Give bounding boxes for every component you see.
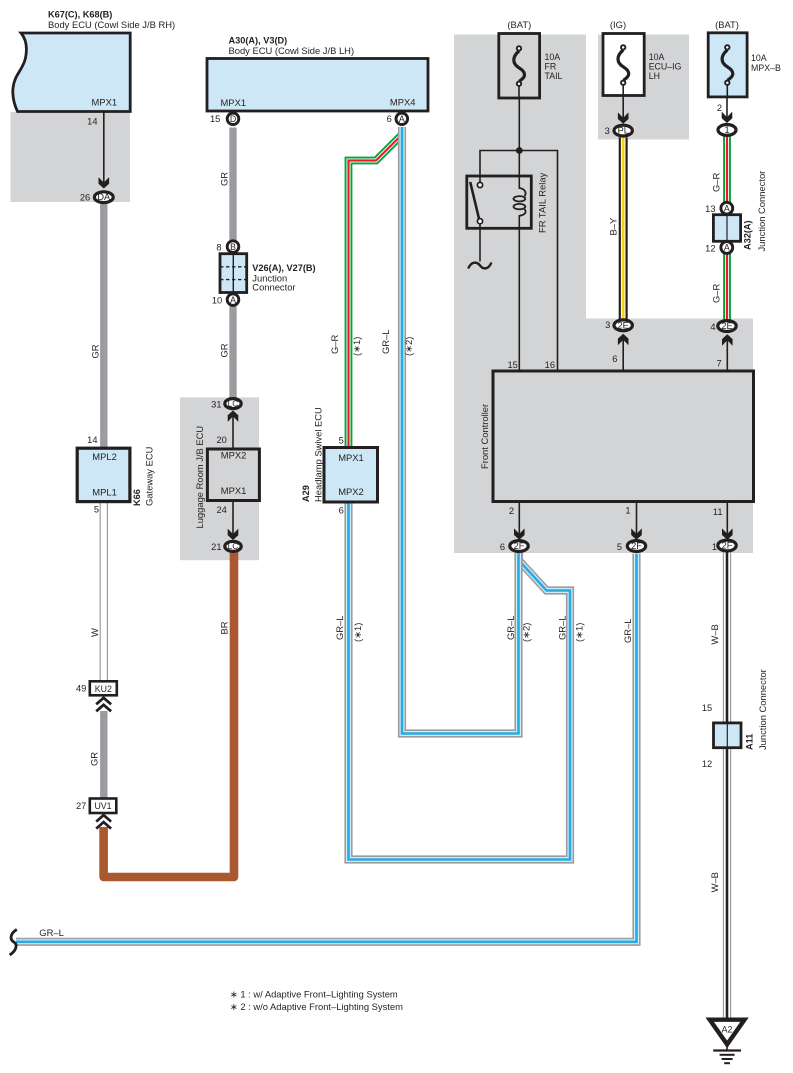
svg-text:11: 11: [713, 507, 723, 517]
svg-text:A: A: [399, 114, 405, 124]
svg-text:KU2: KU2: [95, 684, 112, 694]
svg-text:15: 15: [507, 360, 517, 370]
svg-text:TAIL: TAIL: [545, 71, 563, 81]
svg-text:A29: A29: [301, 485, 311, 502]
svg-text:1: 1: [712, 542, 717, 552]
svg-text:G–R: G–R: [329, 334, 340, 354]
svg-text:MPL1: MPL1: [92, 486, 117, 497]
svg-text:Body ECU (Cowl Side J/B LH): Body ECU (Cowl Side J/B LH): [229, 45, 355, 56]
svg-text:∗ 2 : w/o Adaptive Front–Light: ∗ 2 : w/o Adaptive Front–Lighting System: [230, 1001, 403, 1012]
svg-text:FR TAIL Relay: FR TAIL Relay: [536, 172, 547, 233]
svg-text:10: 10: [212, 296, 222, 306]
svg-text:MPX4: MPX4: [390, 97, 416, 108]
svg-text:G–R: G–R: [711, 283, 722, 303]
svg-text:10A: 10A: [751, 53, 767, 63]
svg-text:MPX–B: MPX–B: [751, 63, 781, 73]
svg-text:6: 6: [500, 542, 505, 552]
svg-text:Front Controller: Front Controller: [479, 404, 490, 469]
svg-text:A: A: [724, 203, 730, 213]
svg-text:MPX1: MPX1: [221, 97, 247, 108]
svg-text:MPX2: MPX2: [338, 486, 364, 497]
svg-text:B–Y: B–Y: [607, 217, 618, 235]
svg-text:W–B: W–B: [709, 624, 720, 644]
svg-text:GR–L: GR–L: [380, 330, 391, 355]
svg-text:6: 6: [387, 114, 392, 124]
svg-text:16: 16: [545, 360, 555, 370]
svg-text:21: 21: [211, 542, 221, 552]
svg-text:A30(A), V3(D): A30(A), V3(D): [229, 36, 288, 46]
svg-text:GR–L: GR–L: [557, 616, 568, 641]
svg-text:15: 15: [702, 703, 712, 713]
svg-text:2F: 2F: [631, 541, 642, 551]
svg-text:20: 20: [216, 435, 226, 445]
svg-text:2E: 2E: [618, 320, 629, 330]
svg-text:W: W: [89, 628, 100, 637]
svg-text:MPX1: MPX1: [221, 485, 247, 496]
svg-text:5: 5: [339, 436, 344, 446]
svg-text:GR: GR: [89, 752, 100, 766]
svg-text:2: 2: [509, 506, 514, 516]
svg-text:49: 49: [76, 684, 86, 694]
svg-text:1: 1: [625, 506, 630, 516]
svg-text:GR: GR: [219, 172, 230, 186]
svg-text:MPX2: MPX2: [221, 450, 247, 461]
svg-text:Body ECU (Cowl Side J/B RH): Body ECU (Cowl Side J/B RH): [48, 19, 175, 30]
svg-text:A32(A): A32(A): [743, 220, 753, 250]
svg-text:DA: DA: [97, 192, 111, 202]
svg-text:D: D: [230, 114, 236, 124]
svg-text:Junction Connector: Junction Connector: [757, 669, 768, 750]
svg-text:2: 2: [717, 103, 722, 113]
svg-text:A: A: [724, 243, 730, 253]
svg-text:1: 1: [724, 125, 729, 135]
svg-text:Connector: Connector: [252, 282, 295, 293]
svg-text:(∗2): (∗2): [403, 337, 414, 356]
svg-text:2F: 2F: [722, 541, 733, 551]
svg-text:LC: LC: [228, 398, 239, 408]
svg-text:12: 12: [705, 243, 715, 253]
svg-text:BR: BR: [219, 621, 230, 634]
svg-text:31: 31: [211, 400, 221, 410]
svg-text:(IG): (IG): [610, 19, 626, 30]
svg-text:A2: A2: [722, 1025, 733, 1035]
svg-text:(∗1): (∗1): [574, 623, 585, 642]
svg-text:5: 5: [617, 542, 622, 552]
svg-text:GR: GR: [219, 343, 230, 357]
svg-text:8: 8: [216, 242, 221, 252]
svg-text:GR–L: GR–L: [505, 616, 516, 641]
svg-text:Headlamp Swivel ECU: Headlamp Swivel ECU: [313, 407, 324, 502]
svg-text:MPX1: MPX1: [338, 452, 364, 463]
svg-text:(∗1): (∗1): [351, 337, 362, 356]
svg-text:2E: 2E: [721, 321, 732, 331]
svg-text:B: B: [230, 242, 236, 252]
svg-text:3: 3: [605, 126, 610, 136]
svg-text:GR–L: GR–L: [334, 616, 345, 641]
svg-text:3: 3: [605, 320, 610, 330]
svg-text:MPX1: MPX1: [92, 97, 118, 108]
svg-text:12: 12: [702, 759, 712, 769]
svg-text:Junction Connector: Junction Connector: [756, 171, 767, 252]
svg-text:6: 6: [339, 506, 344, 516]
svg-text:4: 4: [710, 322, 715, 332]
svg-text:26: 26: [80, 193, 90, 203]
svg-text:UV1: UV1: [94, 801, 111, 811]
svg-text:G–R: G–R: [711, 172, 722, 192]
svg-text:27: 27: [76, 801, 86, 811]
svg-text:2F: 2F: [514, 541, 525, 551]
svg-text:GR–L: GR–L: [622, 619, 633, 644]
svg-text:K66: K66: [132, 489, 142, 506]
svg-text:A: A: [230, 295, 236, 305]
svg-text:GR–L: GR–L: [39, 927, 64, 938]
svg-text:W–B: W–B: [709, 872, 720, 892]
svg-text:14: 14: [87, 117, 97, 127]
svg-text:Gateway ECU: Gateway ECU: [144, 446, 155, 506]
svg-text:∗ 1 : w/ Adaptive Front–Lighti: ∗ 1 : w/ Adaptive Front–Lighting System: [230, 988, 398, 999]
svg-text:(BAT): (BAT): [715, 19, 739, 30]
svg-text:Luggage Room J/B ECU: Luggage Room J/B ECU: [194, 426, 205, 529]
svg-text:A11: A11: [744, 734, 754, 750]
svg-text:6: 6: [612, 354, 617, 364]
svg-text:K67(C), K68(B): K67(C), K68(B): [48, 10, 112, 20]
svg-text:5: 5: [94, 505, 99, 515]
svg-text:15: 15: [210, 114, 220, 124]
svg-text:GR: GR: [90, 344, 101, 358]
svg-text:MPL2: MPL2: [92, 451, 117, 462]
svg-text:(∗2): (∗2): [521, 623, 532, 642]
svg-text:7: 7: [717, 359, 722, 369]
svg-text:(BAT): (BAT): [507, 19, 531, 30]
svg-text:LC: LC: [228, 541, 239, 551]
svg-text:24: 24: [216, 505, 226, 515]
svg-text:LH: LH: [649, 71, 660, 81]
svg-text:14: 14: [87, 435, 97, 445]
svg-text:13: 13: [705, 204, 715, 214]
svg-text:PL: PL: [618, 126, 629, 136]
svg-text:(∗1): (∗1): [352, 623, 363, 642]
